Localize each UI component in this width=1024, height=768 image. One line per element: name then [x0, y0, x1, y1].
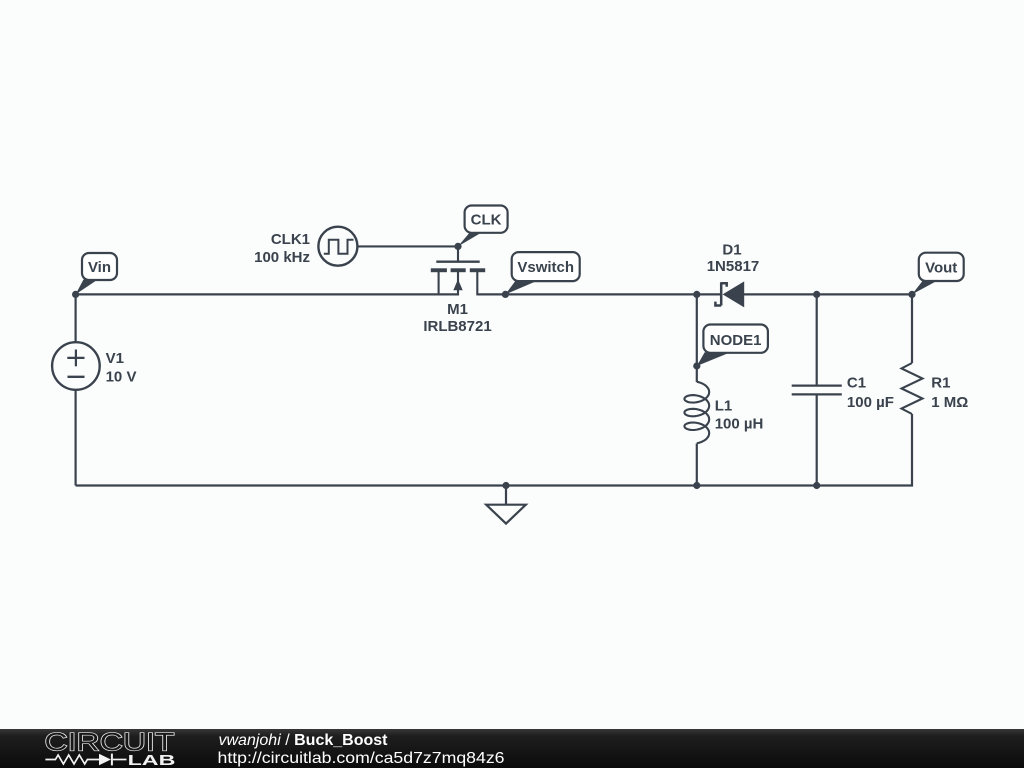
C1 labels — [847, 375, 894, 411]
wire: L1 bottom lead — [696, 444, 698, 486]
node Vout dot — [908, 291, 915, 298]
node junction L1 top — [693, 291, 700, 298]
svg-text:CLK: CLK — [471, 212, 502, 229]
node CLK dot — [454, 243, 461, 250]
logo squiggle (resistor + diode) — [45, 754, 126, 766]
inductor L1 — [684, 382, 709, 444]
svg-text:R1: R1 — [931, 375, 950, 392]
flag Vswitch — [505, 252, 579, 294]
wire: R1 top lead — [911, 294, 913, 363]
svg-text:D1: D1 — [722, 241, 741, 258]
CLK1 labels — [254, 231, 310, 266]
flag Vout — [912, 253, 964, 295]
wire: Vin node down to V1 top — [74, 294, 76, 342]
ground — [486, 486, 526, 524]
svg-text:100 µH: 100 µH — [715, 416, 764, 433]
flag CLK — [458, 206, 508, 247]
node NODE1 dot — [693, 362, 700, 369]
node junction C1 top — [813, 291, 820, 298]
V1 labels — [106, 350, 137, 385]
node ground dot — [502, 482, 509, 489]
svg-text:10 V: 10 V — [106, 368, 137, 385]
svg-text:IRLB8721: IRLB8721 — [423, 318, 491, 335]
svg-text:V1: V1 — [106, 350, 124, 367]
flag Vin — [76, 253, 117, 294]
node junction L1 bottom — [693, 482, 700, 489]
M1 labels — [423, 301, 491, 335]
svg-text:100 µF: 100 µF — [847, 394, 894, 411]
wire: C1 bottom lead — [816, 395, 818, 486]
flag NODE1 — [697, 325, 768, 367]
footer bar — [0, 729, 1024, 768]
resistor R1 — [902, 363, 923, 414]
voltage source V1 — [52, 342, 100, 390]
wire top left: Vin node to M1 source — [76, 293, 459, 295]
svg-text:1 MΩ: 1 MΩ — [931, 394, 968, 411]
node junction C1 bottom — [813, 482, 820, 489]
wire bottom rail — [76, 414, 912, 486]
svg-text:NODE1: NODE1 — [710, 332, 762, 349]
node Vin dot — [72, 291, 79, 298]
svg-text:CLK1: CLK1 — [271, 231, 310, 248]
svg-text:M1: M1 — [447, 301, 468, 318]
svg-text:LAB: LAB — [128, 752, 176, 768]
wire: C1 top lead — [816, 294, 818, 385]
transistor M1 (NMOS) — [436, 246, 479, 261]
R1 labels — [931, 375, 968, 411]
svg-text:C1: C1 — [847, 375, 866, 392]
diode D1 (schottky) — [715, 281, 744, 307]
wire: D1 anode to Vout — [744, 293, 912, 295]
wire: node to L1 branch top — [696, 294, 698, 382]
body arrow — [453, 279, 462, 290]
D1 labels — [707, 241, 760, 275]
svg-text:1N5817: 1N5817 — [707, 258, 760, 275]
L1 labels — [715, 398, 764, 433]
node Vswitch dot — [502, 291, 509, 298]
svg-text:Vin: Vin — [88, 259, 111, 276]
wire: CLK1 to gate — [357, 245, 458, 247]
svg-text:L1: L1 — [715, 398, 733, 415]
clock source CLK1 — [318, 227, 458, 266]
capacitor C1 — [792, 386, 842, 395]
wire top right: M1 drain to D1 cathode — [477, 293, 720, 295]
svg-text:100 kHz: 100 kHz — [254, 249, 310, 266]
svg-text:http://circuitlab.com/ca5d7z7m: http://circuitlab.com/ca5d7z7mq84z6 — [218, 750, 505, 767]
wire: V1 bottom to bottom rail — [74, 390, 76, 486]
svg-text:Vout: Vout — [925, 259, 957, 276]
svg-text:vwanjohi / Buck_Boost: vwanjohi / Buck_Boost — [219, 732, 389, 749]
svg-text:Vswitch: Vswitch — [517, 259, 574, 276]
